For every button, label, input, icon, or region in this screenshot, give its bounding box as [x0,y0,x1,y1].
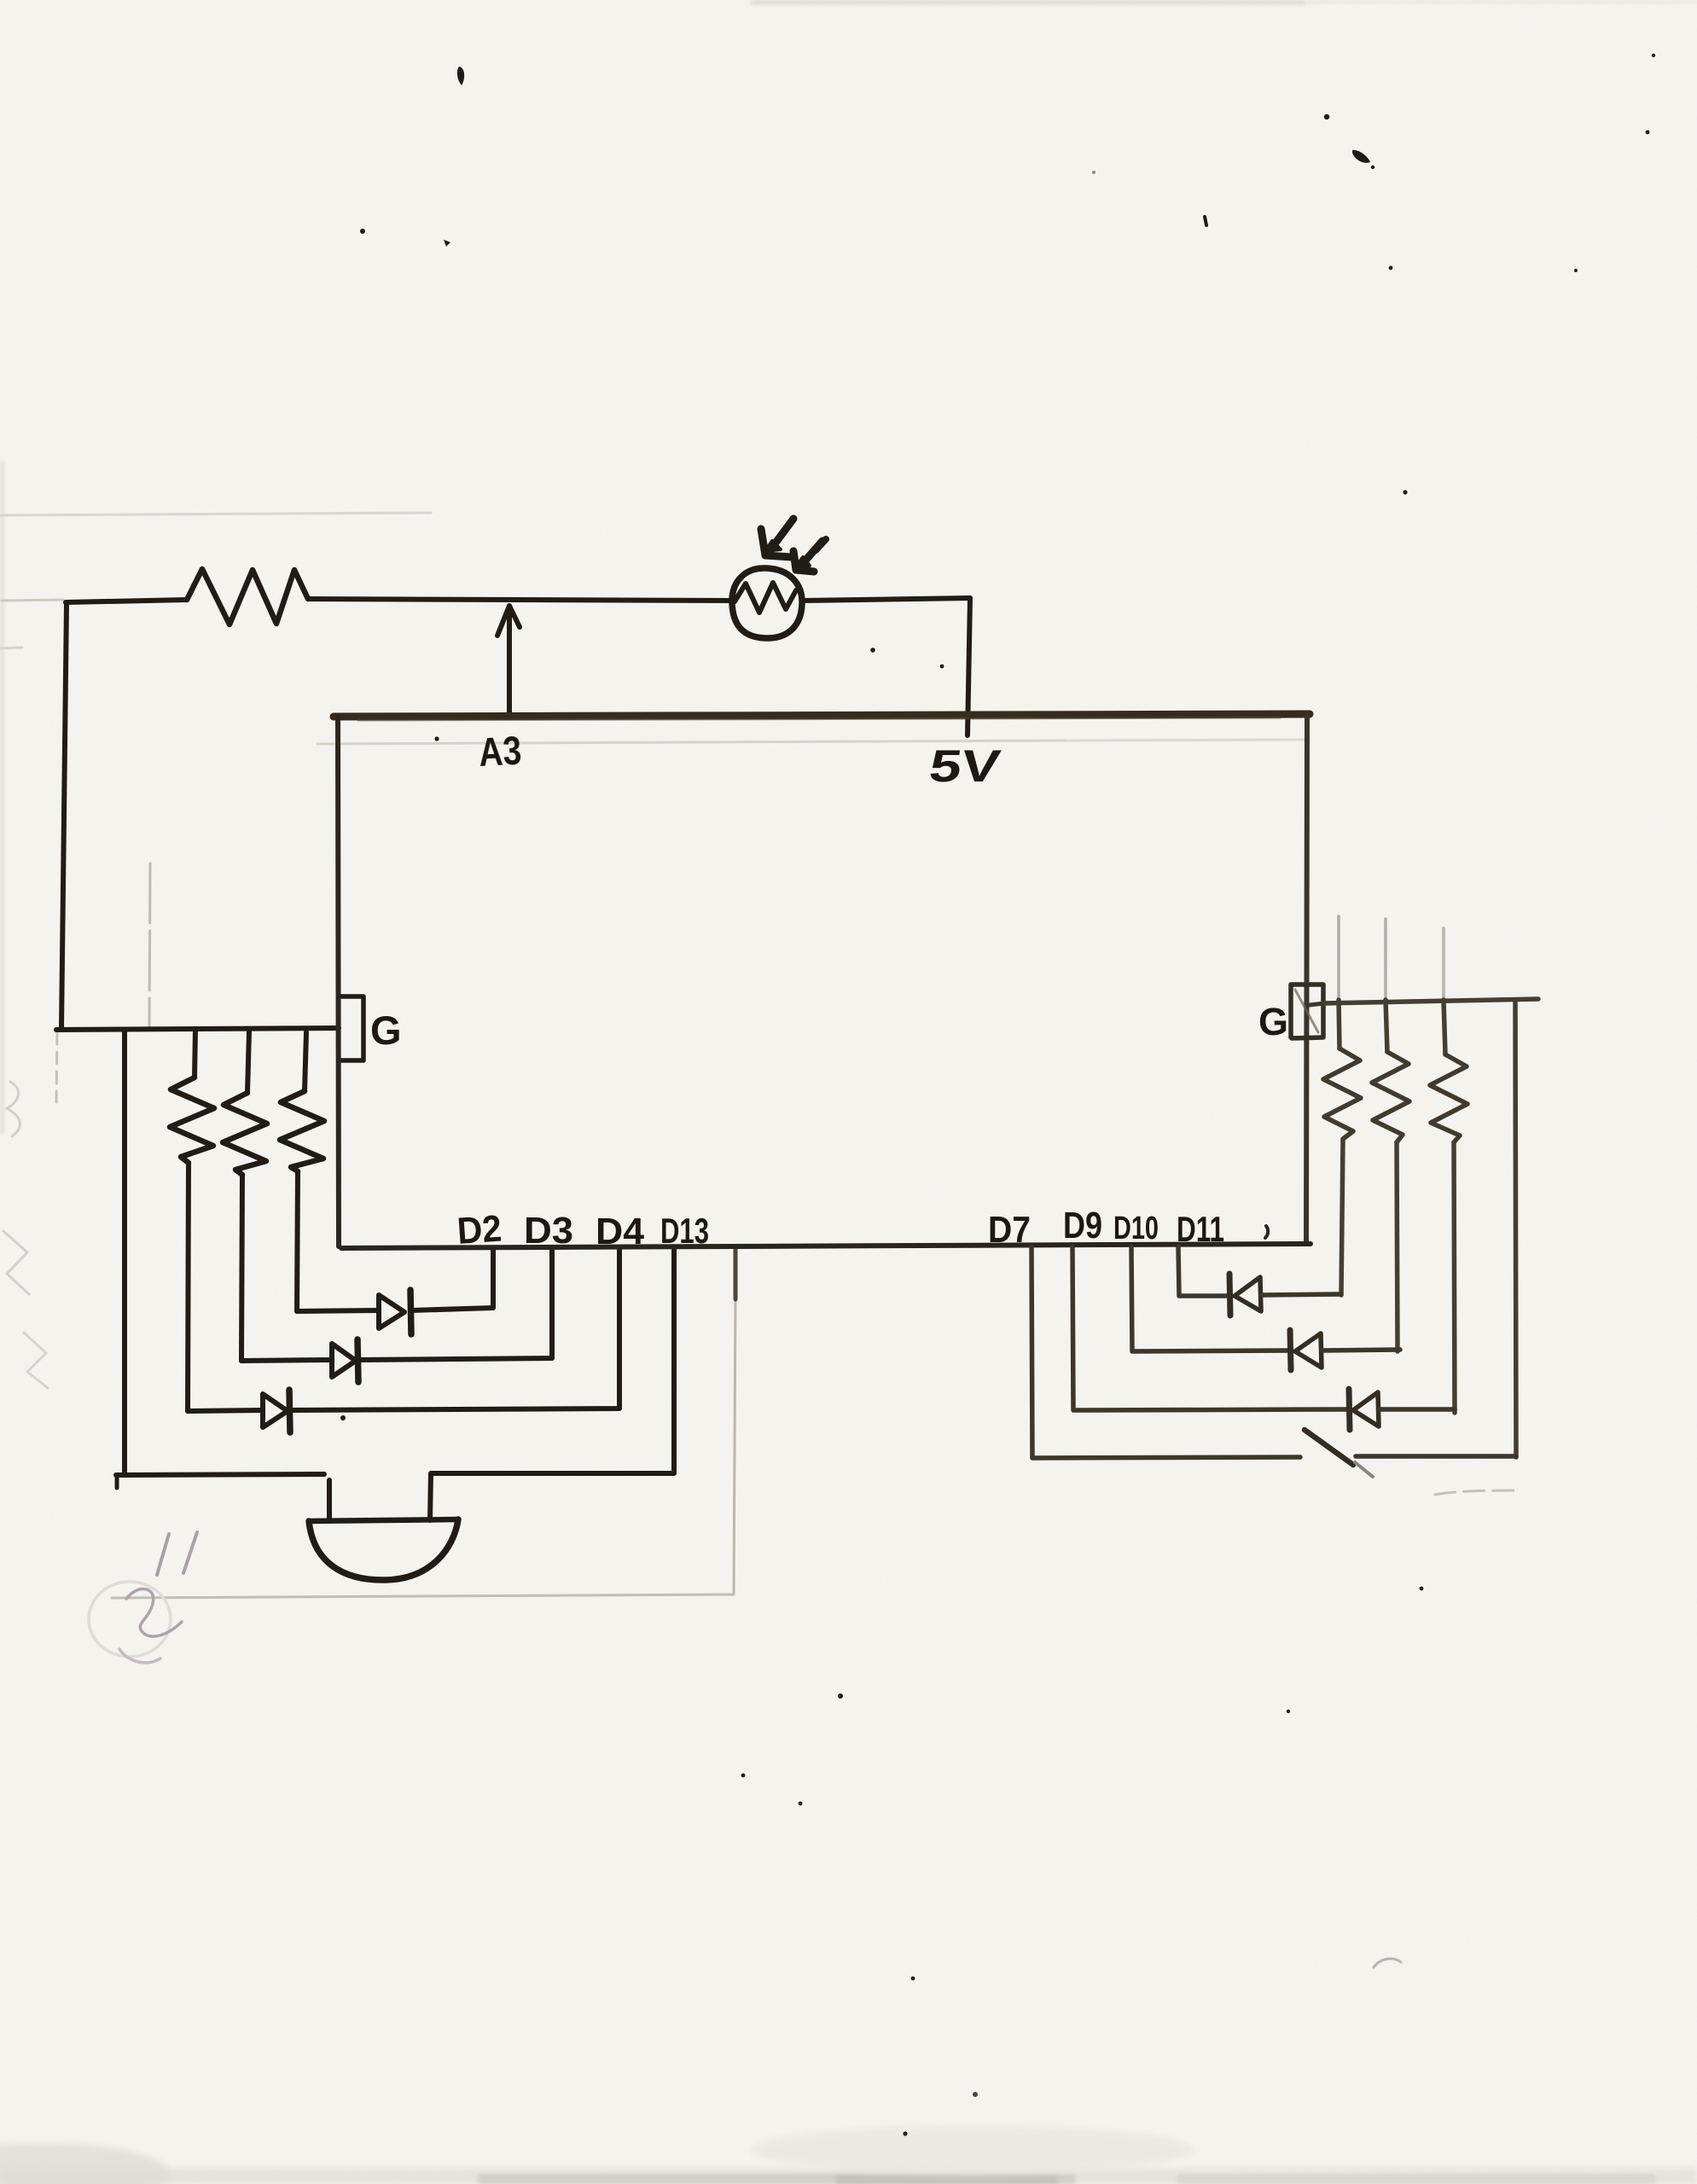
wire: pin D13 drop to speaker [430,1249,674,1520]
svg-text:D9: D9 [1063,1205,1102,1246]
svg-text:D4: D4 [596,1211,645,1252]
resistor R3 (left group) [247,1031,249,1093]
wire: diode row 1 left [297,1310,378,1311]
wire: diode row 3 left [188,1410,262,1411]
svg-text:D11: D11 [1177,1209,1224,1249]
node A3 (arrow to divider tap) [507,608,512,715]
resistor R5 (right group) [1339,1000,1340,1048]
stray tick after D11 label [1265,1226,1268,1238]
resistor R2 (left group) [195,1030,195,1077]
diode at pin D10 [1290,1330,1291,1370]
svg-text:A3: A3 [478,727,523,775]
svg-text:D10: D10 [1113,1211,1159,1246]
ground connector tab G (right) [1291,985,1323,1038]
svg-text:G: G [370,1008,402,1053]
board U1 right edge [1306,716,1307,1244]
speaker SP1 [309,1519,458,1521]
wire: diode row 1 right + pin D2 drop [411,1249,493,1310]
wire: pin D10 drop and row [1131,1246,1288,1351]
wire: pin D11 drop and corner [1178,1246,1229,1296]
wire: speaker left leg [327,1480,332,1520]
wire: photoresistor to 5V corner [802,598,970,601]
svg-text:D13: D13 [660,1211,709,1251]
photoresistor LDR1 zigzag [735,583,796,613]
resistor R4 (left group) [305,1032,306,1091]
svg-text:D3: D3 [524,1210,573,1252]
resistor R7 (right group) [1444,1000,1445,1054]
wire: diode row 2 right + pin D3 drop [358,1249,552,1360]
photoresistor LDR1 light arrow 1 [769,519,793,552]
ground connector tab G (left) [340,996,363,1060]
wire: R6 lead down to D10 row [1397,1142,1398,1351]
wire: faint vertical stroke left of board [149,863,150,1027]
wire: R1 to photoresistor [308,599,731,601]
wire: right ground rail [1324,999,1538,1003]
wire: stub drop from pin bus [734,1248,738,1299]
photoresistor LDR1 light arrow 2 [799,541,822,568]
svg-text:5V: 5V [927,741,1004,792]
resistor R6 (right group) [1386,1000,1387,1052]
diode at pin D9 [1349,1389,1350,1430]
wire: 5V pin drop [968,598,970,735]
wire: pin D9 drop and row [1072,1246,1346,1410]
wire: switch row right [1356,1454,1516,1459]
wire: faint vertical from pin bus (erased) [734,1297,735,1594]
switch SW1 blade [1305,1430,1353,1465]
board U1 left edge [338,717,339,1246]
wire: R2 lead down [188,1163,189,1411]
wire: R5 lead down to D11 row [1341,1139,1343,1295]
wire: R4 lead down [297,1171,298,1311]
diode at pin D3 [332,1344,356,1377]
diode at pin D2 [379,1295,404,1328]
wire: R7 lead down to D9 row [1454,1142,1455,1413]
wire: right outer vertical to switch [1515,1000,1516,1457]
wire: diode row 3 right + pin D4 drop [290,1249,619,1410]
svg-text:G: G [1258,1000,1288,1043]
svg-text:D2: D2 [456,1207,503,1252]
wire: left outer vertical [61,603,67,1029]
wire: ground bus down to speaker row [122,1030,127,1474]
resistor R1 (top-left, divider) [187,569,308,624]
board U1 bottom edge (pin bus) [341,1244,1311,1248]
wire: left ground bus [56,1028,339,1030]
wire: pin D7 drop and switch row left [1032,1246,1300,1458]
photoresistor LDR1 body [732,568,802,638]
diode at pin D11 [1229,1274,1230,1316]
diode at pin D4 [263,1394,288,1427]
board U1 top edge [334,714,1310,717]
svg-text:D7: D7 [988,1209,1031,1251]
wire: diode row 2 left [241,1360,331,1361]
wire: top-left horizontal [66,600,187,602]
wire: faint resistor leads above right ground rail [1337,916,1340,1000]
wire: R3 lead down [241,1175,242,1361]
wire: faint horizontal under speaker (erased) [112,1594,734,1598]
wire: speaker row left horizontal [116,1474,324,1475]
